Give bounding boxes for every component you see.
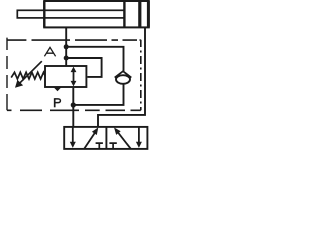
- directional valve DV1 position divider: [105, 127, 107, 149]
- adjustment arrow across spring: [15, 61, 42, 88]
- wire: pilot line from node A dot2 to valve V1 right port: [66, 58, 101, 77]
- DV1 right position: blocked port T symbol: [109, 143, 116, 149]
- check valve CV1 seat: [115, 71, 132, 77]
- cylinder C1 piston: [123, 1, 125, 27]
- DV1 right position: straight down flow arrow: [136, 127, 142, 148]
- pressure valve V1 body: [45, 66, 86, 87]
- wire: node A line from cylinder port to valve V1 top: [65, 27, 67, 66]
- label A: [44, 47, 55, 56]
- pressure valve V1 internal flow arrow (double headed): [71, 67, 77, 87]
- label P: [55, 98, 61, 107]
- spring (adjustable) of valve V1: [11, 72, 45, 79]
- cylinder C1 body: [44, 1, 149, 27]
- wire: check valve bottom to node P: [73, 84, 123, 105]
- DV1 right position: diagonal flow arrow: [114, 127, 131, 148]
- DV1 left position: diagonal flow arrow: [84, 127, 98, 148]
- cylinder C1 cushion bar: [138, 1, 141, 27]
- node A junction dot 1: [64, 44, 69, 49]
- node A junction dot 2: [64, 56, 69, 61]
- dashed enclosure box left edge: [6, 38, 8, 111]
- wire: line B from cylinder right port to directional valve: [98, 27, 145, 127]
- DV1 left position: straight down flow arrow: [70, 127, 76, 148]
- cylinder C1 right end bar: [147, 1, 150, 27]
- dashed enclosure box right edge: [140, 40, 142, 111]
- cylinder C1 left end cap bar: [43, 1, 45, 27]
- cylinder C1 piston rod: [17, 10, 124, 18]
- dashed enclosure box top edge: [7, 39, 141, 41]
- DV1 left position: blocked port T symbol: [96, 143, 103, 149]
- dashed enclosure box bottom edge: [7, 109, 141, 111]
- pressure valve V1 bottom outlet arrowhead: [53, 87, 61, 91]
- node P junction dot: [71, 102, 76, 107]
- wire: node P line from valve V1 bottom to directional valve: [72, 88, 74, 127]
- wire: branch from node A dot1 to check valve: [66, 47, 123, 72]
- directional valve DV1 outline: [64, 127, 147, 149]
- check valve CV1 ball: [116, 75, 130, 84]
